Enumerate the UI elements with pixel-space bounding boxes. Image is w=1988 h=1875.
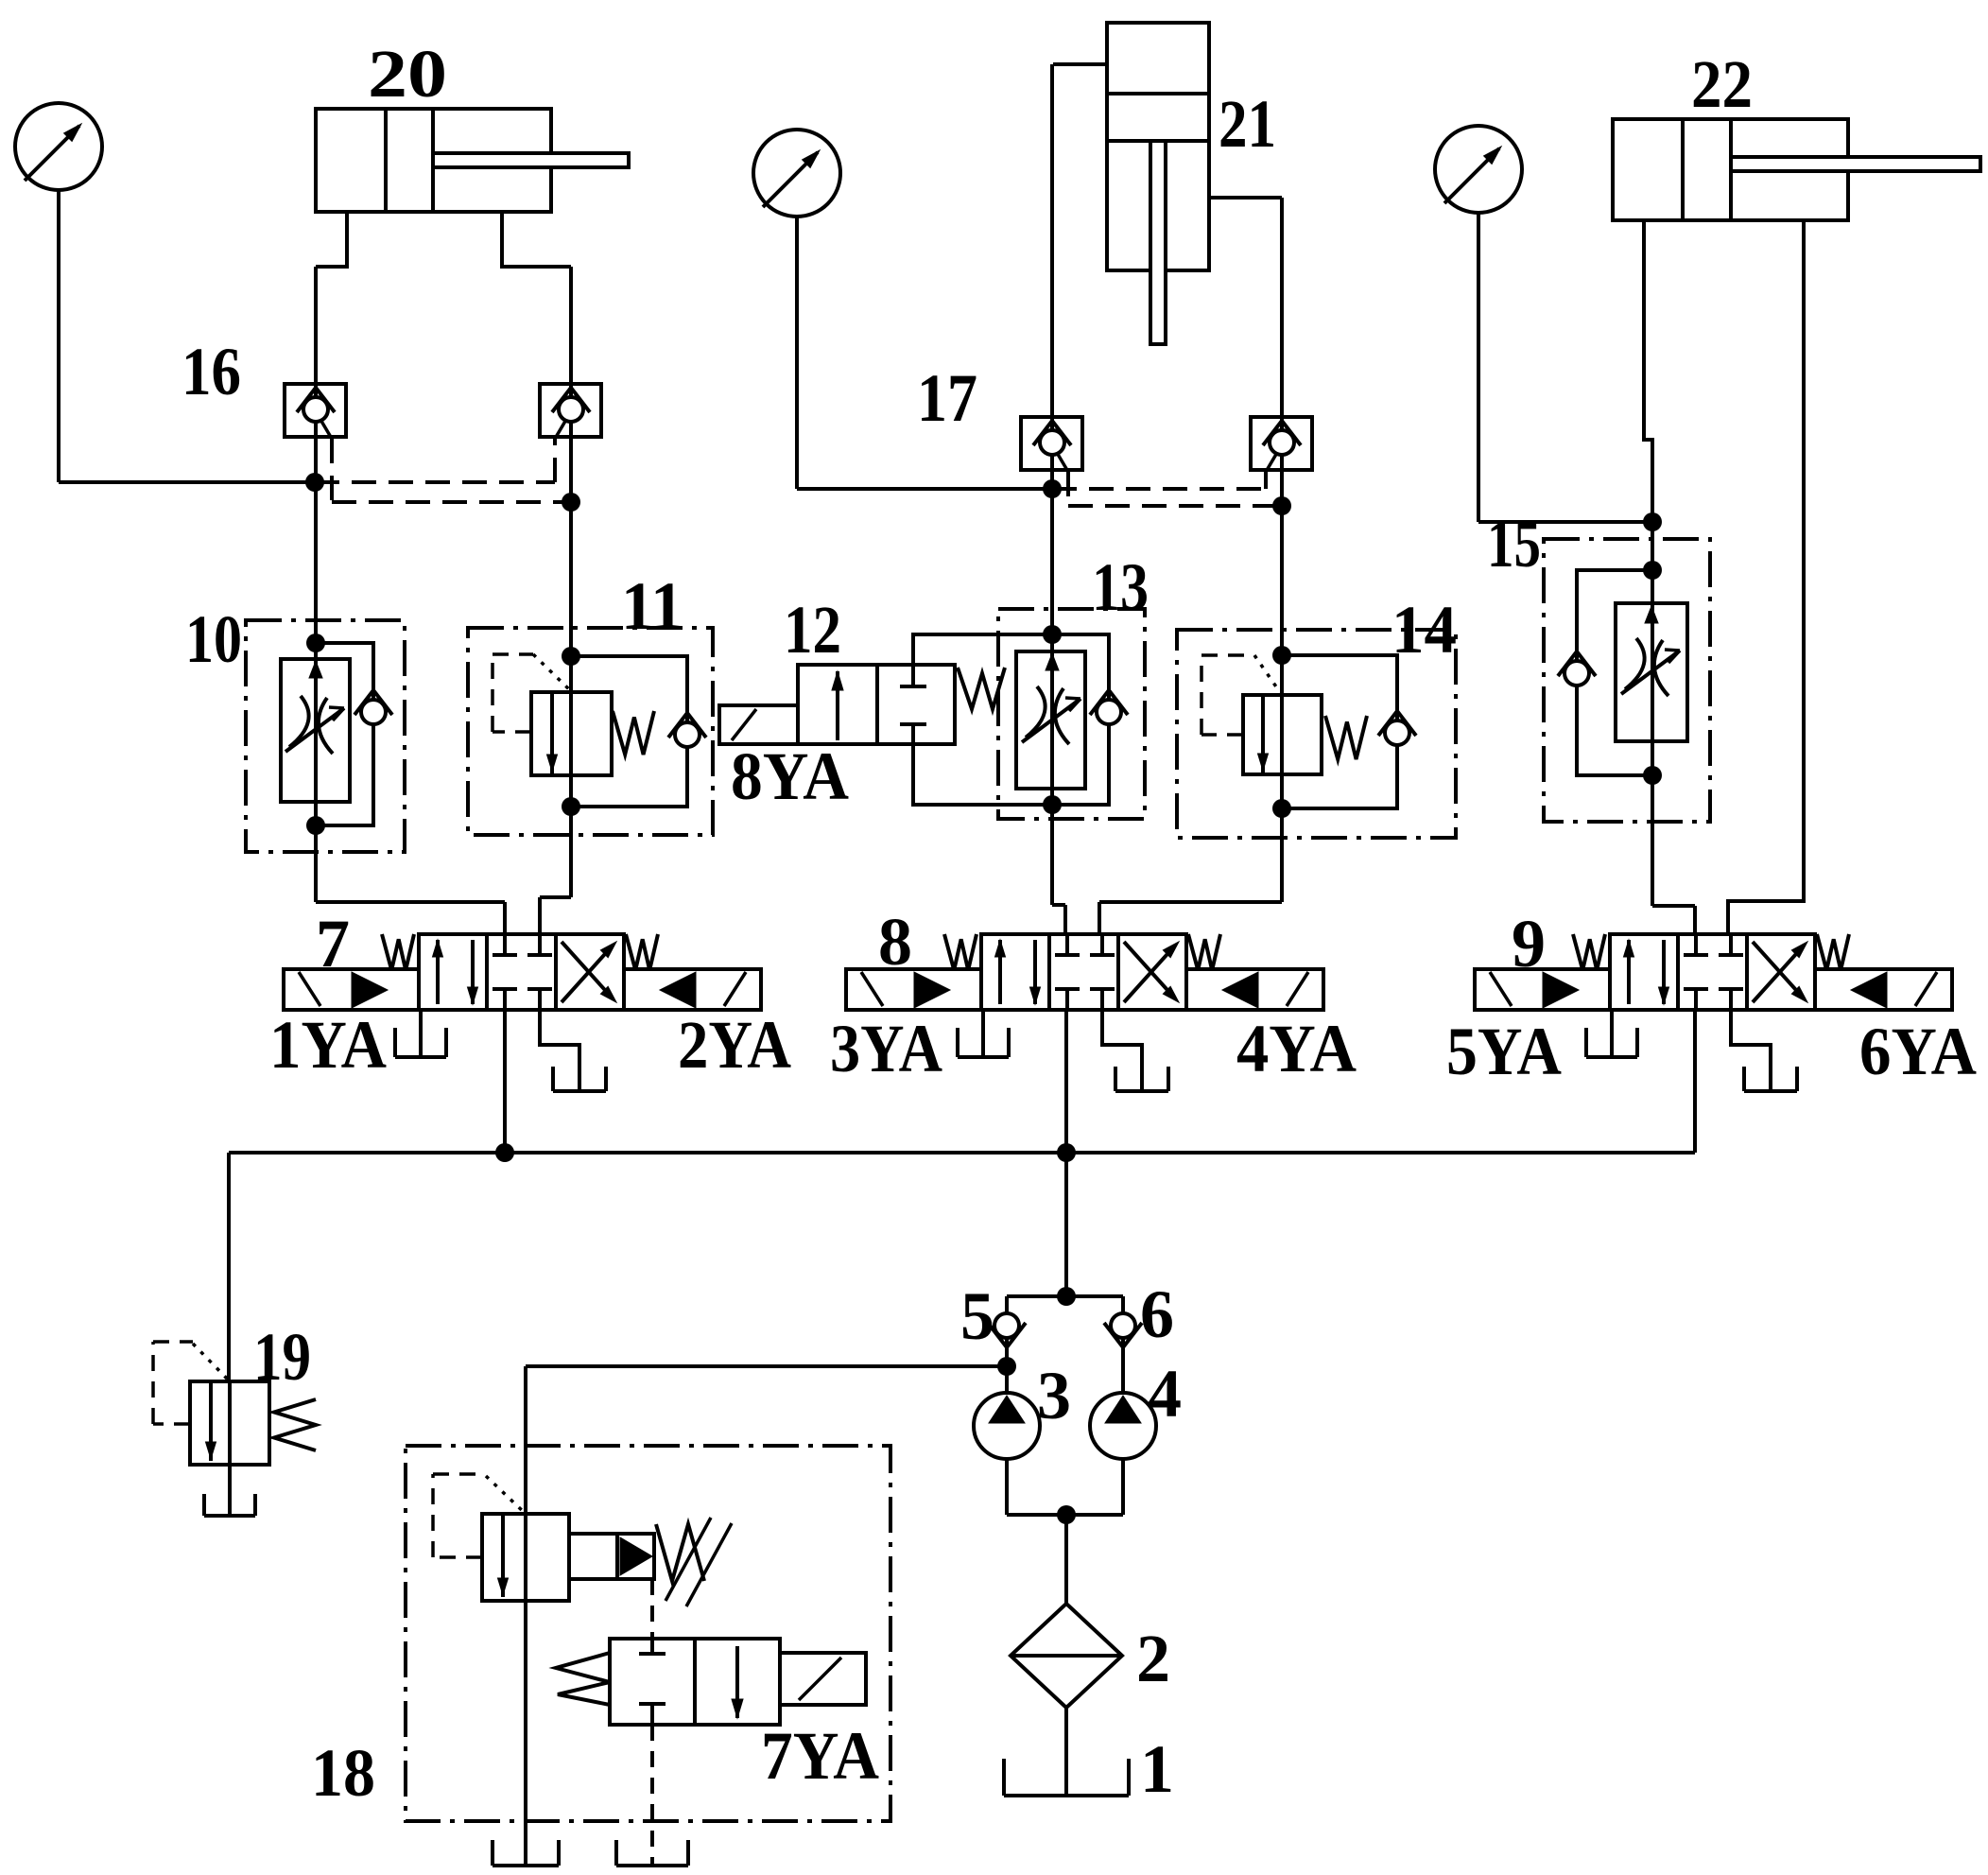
svg-text:19: 19 [253,1319,311,1395]
svg-text:17: 17 [917,360,977,436]
svg-text:22: 22 [1691,46,1753,122]
svg-text:12: 12 [784,592,841,668]
svg-text:6: 6 [1140,1276,1174,1352]
svg-text:5: 5 [960,1278,994,1354]
svg-text:5YA: 5YA [1446,1014,1562,1089]
svg-text:9: 9 [1512,906,1546,981]
svg-text:3: 3 [1037,1358,1071,1433]
svg-text:4YA: 4YA [1236,1011,1357,1086]
svg-text:7YA: 7YA [761,1718,879,1794]
svg-text:21: 21 [1219,86,1276,162]
svg-text:2YA: 2YA [678,1007,791,1083]
svg-text:8YA: 8YA [731,738,849,814]
svg-text:1YA: 1YA [269,1007,387,1083]
svg-text:6YA: 6YA [1859,1014,1977,1089]
svg-text:20: 20 [368,36,447,112]
svg-text:18: 18 [311,1735,375,1811]
svg-text:15: 15 [1487,506,1541,582]
svg-text:16: 16 [182,334,241,409]
svg-text:3YA: 3YA [830,1011,942,1086]
svg-text:7: 7 [316,906,350,981]
svg-text:2: 2 [1136,1621,1170,1696]
svg-text:11: 11 [621,568,683,644]
svg-text:14: 14 [1392,592,1457,668]
svg-text:4: 4 [1148,1356,1182,1432]
svg-text:8: 8 [878,904,912,980]
svg-text:13: 13 [1092,549,1149,625]
svg-text:1: 1 [1140,1731,1174,1807]
svg-text:10: 10 [185,601,242,677]
